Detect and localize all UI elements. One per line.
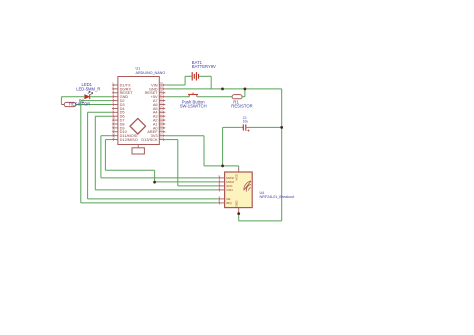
wire to NRF CSN xyxy=(95,189,218,191)
junction VCC/C1 xyxy=(221,165,224,168)
U4 pin CE xyxy=(218,198,225,200)
U4 pin SCK xyxy=(218,185,225,187)
U1 diamond logo xyxy=(130,118,146,134)
wire C1 left down to VCC xyxy=(222,127,224,165)
wire to NRF SCK xyxy=(178,185,218,187)
U4 pin CSN xyxy=(218,189,225,191)
U1 pin 8 D5 (left) xyxy=(112,111,118,113)
wire into NRF VCC stub xyxy=(238,166,240,167)
wire D13 down xyxy=(177,140,179,186)
wire D5 down xyxy=(87,112,89,199)
U1 pin 29 GND (right) xyxy=(159,88,165,90)
svg-text:10u: 10u xyxy=(243,120,249,124)
push button SW1 xyxy=(188,93,198,95)
U1 pin 24 A5 (right) xyxy=(159,107,165,109)
U1 pin 17 3V3 (right) xyxy=(159,135,165,137)
wire U1 D12 left xyxy=(105,139,112,141)
svg-text:NRF24L01_Breakout: NRF24L01_Breakout xyxy=(260,195,295,199)
U1 pin 15 D12/MISO (left) xyxy=(112,139,118,141)
wire U1 D6 left xyxy=(95,115,112,117)
wire to C1 left plate xyxy=(223,126,244,128)
U1 pin 26 A7 (right) xyxy=(159,100,165,102)
wire down to MISO row xyxy=(154,170,156,182)
svg-text:VCC: VCC xyxy=(235,173,239,180)
junction staircase corner xyxy=(153,181,156,184)
wire C1 right plate to GND vertical xyxy=(246,126,282,128)
U4 pin VCC (top) xyxy=(238,167,240,172)
U1 pin 11 D8 (left) xyxy=(112,123,118,125)
U1 pin 25 A6 (right) xyxy=(159,104,165,106)
wire U1 +5V to push button xyxy=(165,96,189,98)
U1 pin 2 D0/RX (left) xyxy=(112,88,118,90)
wire GND vertical right xyxy=(281,89,283,221)
wire U1 D13/SCK right xyxy=(165,139,178,141)
LED LED1 arrows xyxy=(88,91,90,93)
wire battery - down xyxy=(210,76,212,89)
U1 pin 28 RESET (right) xyxy=(159,92,165,94)
wire LED anode left xyxy=(61,96,84,98)
wire U1 D11 left xyxy=(101,135,112,137)
wire to NRF CE xyxy=(88,198,218,200)
U1 pin 20 A1 (right) xyxy=(159,123,165,125)
U1 pin 1 D1/TX (left) xyxy=(112,84,118,86)
wire D11 down xyxy=(100,136,102,178)
junction C1/GND xyxy=(280,126,283,129)
LED LED1 symbol xyxy=(85,95,90,99)
wire D6 down xyxy=(94,116,96,190)
wire to NRF MISO xyxy=(155,181,218,183)
svg-text:SW-1SWITCH: SW-1SWITCH xyxy=(180,104,207,109)
wire down to R2 xyxy=(60,97,62,105)
U1 pin 23 A4 (right) xyxy=(159,111,165,113)
wire D12 right xyxy=(105,169,154,171)
wire push button to R1 xyxy=(197,96,232,98)
wire battery - lead xyxy=(199,75,212,77)
resistor R2 xyxy=(61,104,64,106)
svg-text:ARDUINO_NANO: ARDUINO_NANO xyxy=(136,71,166,75)
resistor R1 xyxy=(232,95,242,99)
U1 pin 7 D4 (left) xyxy=(112,107,118,109)
U1 pin 16 D13/SCK (right) xyxy=(159,139,165,141)
U1 pin 4 GND (left) xyxy=(112,96,118,98)
wire D2 down xyxy=(80,101,82,203)
U1 Arduino Nano body xyxy=(118,77,159,145)
wire R2 to U1 D3 xyxy=(76,104,112,106)
wire U1 D5 left xyxy=(88,111,112,113)
wire D12 down xyxy=(104,140,106,171)
junction GND row B xyxy=(244,88,247,91)
wire LED cathode to U1 GND xyxy=(90,96,112,98)
U1 pin 5 D2 (left) xyxy=(112,100,118,102)
svg-text:D12/MISO: D12/MISO xyxy=(120,137,138,142)
U4 pin GND (bottom) xyxy=(238,208,240,214)
U1 pin 22 A3 (right) xyxy=(159,115,165,117)
wire U1 3V3 right xyxy=(165,135,204,137)
svg-text:RESISTOR: RESISTOR xyxy=(231,104,252,109)
U1 pin 3 RESET (left) xyxy=(112,92,118,94)
wire NRF GND stub down xyxy=(238,213,240,221)
U1 pin 18 AREF (right) xyxy=(159,131,165,133)
svg-text:D13/SCK: D13/SCK xyxy=(141,137,158,142)
U1 pin 12 D9 (left) xyxy=(112,127,118,129)
junction GND row A xyxy=(221,88,224,91)
U4 pin IRQ xyxy=(218,202,225,204)
wire U1 D2 left xyxy=(81,100,112,102)
junction NRF GND xyxy=(237,212,240,215)
IC U4 NRF24L01 body xyxy=(225,172,253,208)
U4 antenna icon xyxy=(244,181,251,192)
U1 pin 27 +5V (right) xyxy=(159,96,165,98)
wire to NRF IRQ xyxy=(81,202,218,204)
U1 pin 14 D11/MOSI (left) xyxy=(112,135,118,137)
U1 pin 30 VIN (right) xyxy=(159,84,165,86)
wire battery + down xyxy=(184,76,186,85)
battery BAT1 symbol xyxy=(191,72,193,80)
wire 3V3 down xyxy=(203,136,205,166)
svg-text:GND: GND xyxy=(235,200,239,208)
U1 pin 21 A2 (right) xyxy=(159,119,165,121)
wire to NRF MOSI xyxy=(101,177,218,179)
wire GND bottom to NRF xyxy=(239,220,282,222)
U4 pin MISO xyxy=(218,181,225,183)
U1 pin 13 D10 (left) xyxy=(112,131,118,133)
U1 pin 6 D3 (left) xyxy=(112,104,118,106)
wire battery + lead xyxy=(185,75,192,77)
U1 usb connector rectangle xyxy=(137,145,139,148)
U1 pin 10 D7 (left) xyxy=(112,119,118,121)
wire R1 right lead xyxy=(242,96,245,98)
wire battery + to U1 VIN xyxy=(165,84,185,86)
U4 pin MOSI xyxy=(218,177,225,179)
wire U1 GND row xyxy=(165,88,281,90)
svg-text:RESISTOR: RESISTOR xyxy=(69,101,90,106)
U1 pin 9 D6 (left) xyxy=(112,115,118,117)
wire VCC row to NRF xyxy=(204,165,239,167)
svg-text:CSN: CSN xyxy=(226,188,233,192)
wire R1 up to GND row xyxy=(244,89,246,97)
svg-text:LED-5MM_R: LED-5MM_R xyxy=(76,87,100,92)
U1 pin 19 A0 (right) xyxy=(159,127,165,129)
svg-text:IRQ: IRQ xyxy=(226,201,232,205)
capacitor C1 xyxy=(242,124,244,130)
svg-text:BATTERY9V: BATTERY9V xyxy=(192,64,216,69)
